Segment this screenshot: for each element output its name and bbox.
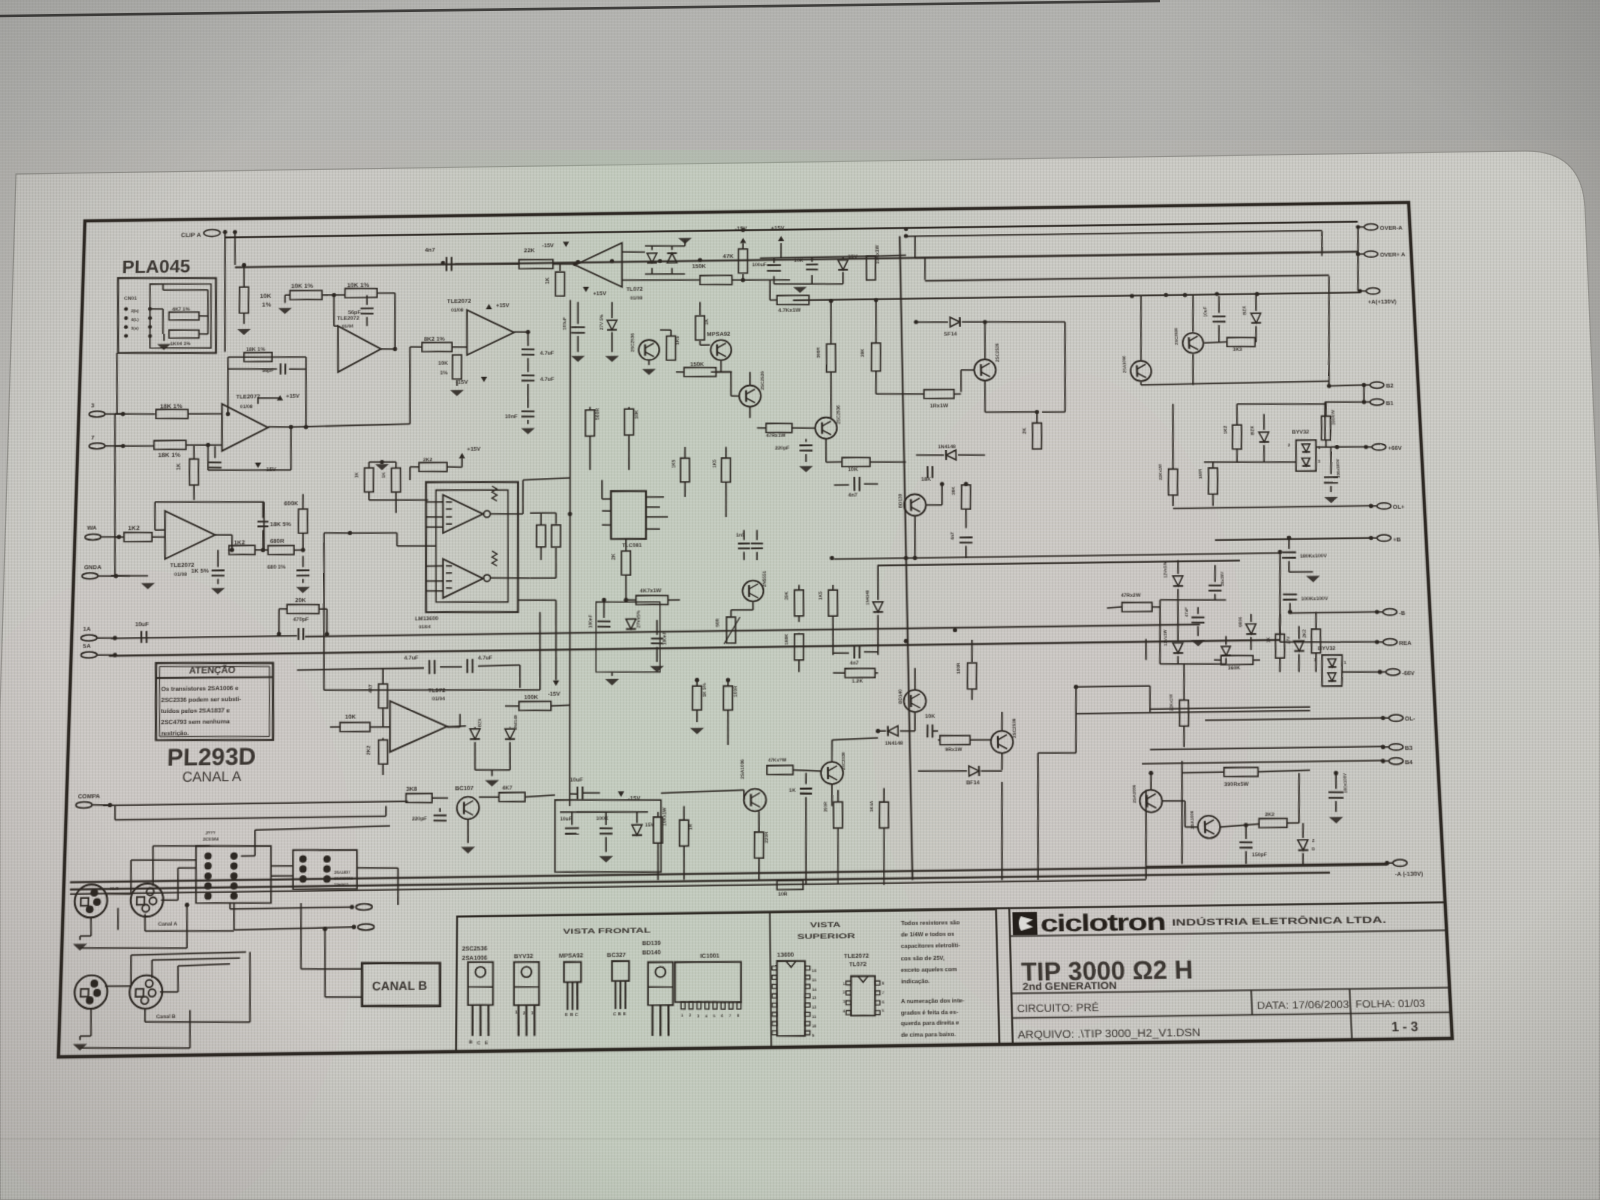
- cap 4.7uF b: [521, 358, 554, 384]
- svg-text:4n7: 4n7: [850, 661, 859, 667]
- svg-text:13600: 13600: [777, 952, 795, 960]
- svg-text:12Vx1W: 12Vx1W: [1162, 630, 1168, 646]
- PLA045 title: [122, 257, 191, 278]
- svg-text:10K: 10K: [438, 361, 448, 367]
- cap 4n7 f1: [834, 477, 878, 499]
- res 47K vert: [723, 249, 748, 283]
- zener 12Vx1W b: [1161, 600, 1183, 664]
- ground PLA045: [157, 334, 171, 350]
- terminal strip 2 box: [292, 849, 357, 890]
- svg-text:1%: 1%: [440, 370, 448, 376]
- svg-text:6: 6: [721, 1014, 723, 1018]
- PLA045 pin labels: [130, 308, 139, 331]
- svg-text:470pF: 470pF: [293, 617, 310, 623]
- svg-text:BF14: BF14: [966, 780, 981, 786]
- svg-text:4K7: 4K7: [502, 786, 512, 792]
- svg-text:1K: 1K: [1266, 636, 1271, 643]
- svg-text:XLR: XLR: [110, 886, 119, 891]
- svg-text:+15V: +15V: [771, 226, 785, 232]
- svg-text:4K7 1%: 4K7 1%: [172, 307, 190, 313]
- svg-text:2SC2536: 2SC2536: [760, 371, 765, 390]
- connector +A(+130V): [1358, 288, 1397, 306]
- res 8K2 1%: [422, 336, 452, 352]
- svg-text:150pF: 150pF: [1252, 852, 1267, 858]
- svg-text:-B: -B: [1399, 610, 1406, 617]
- res 4.7Kx1W: [777, 295, 809, 314]
- junction dots extra: [568, 480, 1079, 696]
- bus 712 pair: [1076, 710, 1310, 713]
- wire 1K2 fb: [228, 549, 232, 551]
- gnd XLR1: [73, 917, 92, 951]
- svg-text:4K7x1W: 4K7x1W: [640, 588, 662, 594]
- res MPSA92 bias: [695, 302, 710, 340]
- svg-text:1K5: 1K5: [675, 336, 681, 345]
- svg-text:2K2: 2K2: [366, 745, 372, 755]
- svg-text:1K5: 1K5: [818, 591, 823, 600]
- svg-text:2K2: 2K2: [1265, 812, 1275, 818]
- svg-text:13: 13: [812, 996, 816, 1000]
- LM pins a: [426, 502, 443, 528]
- connector 5A: [81, 642, 118, 658]
- svg-text:B2: B2: [1386, 383, 1395, 390]
- bus B wire: [235, 248, 1358, 269]
- gnd 10nF: [521, 420, 535, 434]
- wire lm in b: [348, 530, 437, 548]
- gnd 220uF: [799, 454, 813, 472]
- connector B2: [1362, 382, 1395, 391]
- svg-text:OVER-A: OVER-A: [1380, 225, 1404, 232]
- svg-text:8: 8: [737, 1014, 739, 1018]
- svg-text:10Kx1W: 10Kx1W: [662, 807, 667, 826]
- svg-text:7: 7: [91, 434, 95, 441]
- svg-text:3K8: 3K8: [406, 786, 418, 793]
- ciclotron wordmark: [1040, 908, 1165, 937]
- CANAL B box: [361, 962, 440, 1007]
- wire -66V: [1342, 671, 1380, 672]
- svg-text:18K 1%: 18K 1%: [158, 452, 181, 459]
- cap inB: [208, 446, 222, 468]
- res vert LM b: [541, 513, 561, 548]
- svg-text:3: 3: [697, 1014, 699, 1018]
- svg-text:BC107: BC107: [455, 785, 474, 792]
- svg-text:-15V: -15V: [548, 692, 560, 698]
- res on lower bus: [777, 880, 803, 898]
- svg-text:D: D: [1312, 846, 1315, 851]
- svg-text:1K 5%: 1K 5%: [702, 682, 707, 697]
- cap 100x100 r: [1322, 447, 1341, 492]
- svg-text:7: 7: [882, 991, 884, 995]
- svg-text:Canal A: Canal A: [158, 922, 178, 928]
- transistor Qi: [821, 751, 847, 784]
- wire GNDA gnd: [111, 575, 130, 578]
- res 10K b: [330, 713, 390, 732]
- svg-text:23HB02: 23HB02: [334, 883, 348, 887]
- svg-text:10nF: 10nF: [505, 414, 518, 420]
- wire sf14 down: [1039, 322, 1067, 412]
- transistor Qa: [973, 343, 1000, 381]
- wire under net: [193, 446, 196, 500]
- res 1K5 g: [818, 585, 839, 655]
- svg-text:CN01: CN01: [124, 296, 137, 302]
- cap 56pF top: [348, 308, 374, 316]
- svg-text:tuídos pelos 2SA1837 e: tuídos pelos 2SA1837 e: [161, 707, 230, 715]
- svg-text:9: 9: [812, 1033, 814, 1037]
- svg-text:2SC2336: 2SC2336: [841, 751, 846, 770]
- svg-text:1 - 3: 1 - 3: [1391, 1018, 1419, 1034]
- svg-text:+15V: +15V: [286, 394, 300, 400]
- green moire band: [380, 150, 1020, 1200]
- res 1K rl: [1265, 614, 1286, 672]
- cap 1K5pc gnd: [190, 550, 225, 595]
- ground h1: [278, 295, 292, 314]
- stair wire 1: [1033, 686, 1157, 880]
- res 1K i: [789, 773, 812, 794]
- connector +66V: [1364, 444, 1402, 453]
- svg-text:4.7Kx1W: 4.7Kx1W: [778, 308, 801, 314]
- industria eletronica ltda: [1172, 913, 1387, 927]
- svg-text:1K 5%: 1K 5%: [191, 568, 210, 575]
- svg-text:cos são de 25V,: cos são de 25V,: [901, 954, 945, 962]
- svg-text:100nF: 100nF: [662, 631, 667, 645]
- svg-text:10uF: 10uF: [1203, 306, 1208, 317]
- svg-text:OL+: OL+: [1393, 504, 1406, 511]
- wire lm right join: [530, 548, 556, 578]
- pwr +15V clip: [583, 286, 607, 297]
- bus 1A cont: [305, 624, 1200, 641]
- zener 15V reg: [838, 254, 858, 270]
- svg-text:10K 1%: 10K 1%: [347, 282, 370, 289]
- wire B2 rail: [1329, 384, 1364, 387]
- opamp1 feedback loop: [225, 356, 309, 430]
- wire xlr mesh c: [80, 1010, 191, 1050]
- gnd 1K5pc: [690, 728, 704, 735]
- svg-text:10K: 10K: [345, 714, 357, 721]
- svg-text:MPSA92: MPSA92: [707, 331, 731, 338]
- wire h1-h2: [322, 293, 345, 298]
- PLA wires: [149, 283, 209, 334]
- pwr +15V lm: [459, 447, 481, 467]
- title rule big: [1011, 988, 1449, 994]
- svg-text:BD140: BD140: [898, 689, 903, 704]
- svg-text:REA: REA: [1399, 640, 1413, 647]
- pink moire right: [870, 370, 1250, 1030]
- byv32 diodes r: [1288, 442, 1322, 467]
- bus +A rail: [793, 293, 1360, 301]
- ecap 100uF reg: [752, 258, 781, 271]
- svg-text:2SC2536: 2SC2536: [1173, 327, 1179, 345]
- gnd d: [599, 837, 613, 863]
- svg-text:E: E: [485, 1040, 488, 1045]
- svg-text:47K: 47K: [723, 253, 734, 260]
- cap 10uF d: [560, 812, 579, 834]
- package 13600 top: [771, 951, 818, 1038]
- wire lm left loop: [321, 530, 540, 693]
- svg-text:3(a): 3(a): [131, 326, 139, 331]
- svg-text:C: C: [575, 1012, 578, 1017]
- LM13600 inner box: [435, 489, 509, 603]
- bus B vertical: [232, 230, 237, 265]
- loop 20K wires: [277, 608, 330, 637]
- wire rl rails: [1158, 599, 1229, 665]
- svg-text:25x35V: 25x35V: [1219, 571, 1225, 586]
- left vertical rail: [110, 414, 120, 576]
- wire +B rail: [1215, 535, 1371, 541]
- resistor 600K vert: [283, 500, 308, 534]
- svg-text:+A(+130V): +A(+130V): [1368, 299, 1397, 306]
- svg-text:2N5551: 2N5551: [762, 570, 767, 587]
- VISTA SUPERIOR label: [797, 921, 856, 941]
- svg-text:10K: 10K: [794, 258, 804, 264]
- svg-text:indicação.: indicação.: [901, 978, 930, 986]
- bus COMPA 2nd: [115, 802, 386, 820]
- diode rl: [1221, 636, 1231, 664]
- cap 10K g: [925, 714, 938, 738]
- opamp3 out wire: [381, 347, 397, 351]
- svg-text:2SC2536: 2SC2536: [462, 945, 488, 953]
- wire Qa: [959, 320, 989, 392]
- wire xlr mesh d: [145, 952, 252, 1023]
- svg-text:4(L): 4(L): [131, 317, 139, 322]
- transistor Qd2: [1120, 296, 1152, 385]
- svg-text:-A (-130V): -A (-130V): [1395, 870, 1423, 878]
- svg-text:capacitores eletrolíti-: capacitores eletrolíti-: [901, 942, 960, 950]
- zener 12Vx1W a: [1162, 560, 1183, 600]
- svg-text:Canal B: Canal B: [156, 1014, 176, 1021]
- cap 18K 5pc: [257, 521, 291, 528]
- zener ic: [626, 610, 641, 630]
- wire -A bus: [1146, 863, 1387, 866]
- svg-text:-15V: -15V: [735, 226, 747, 232]
- terminal strip 2 label: [334, 871, 354, 887]
- res 100K b: [505, 693, 570, 711]
- svg-text:TLE2072: TLE2072: [337, 316, 359, 322]
- strip wires3: [356, 867, 398, 905]
- bus COMPA wire: [103, 801, 408, 805]
- svg-text:01/08: 01/08: [630, 296, 643, 302]
- svg-text:5: 5: [882, 1009, 885, 1013]
- svg-text:BD139: BD139: [642, 940, 662, 948]
- svg-text:1K2: 1K2: [234, 539, 246, 546]
- cap 10uF 1A: [135, 621, 150, 643]
- transistor BD139: [898, 493, 926, 516]
- diode BF14 h: [918, 766, 1002, 787]
- connector B1: [1362, 399, 1395, 408]
- svg-text:12: 12: [812, 1006, 816, 1010]
- svg-text:TLE2072: TLE2072: [844, 952, 870, 960]
- bus 1A: [111, 636, 297, 639]
- opamp TL072 clip: [575, 243, 622, 288]
- svg-text:querda para direita e: querda para direita e: [901, 1020, 960, 1028]
- pwr -15V opamp1: [255, 462, 277, 473]
- res 180K g: [784, 633, 804, 672]
- svg-text:BZX: BZX: [477, 718, 482, 727]
- svg-text:2SC3298B: 2SC3298B: [334, 877, 353, 881]
- svg-text:22Kx1W: 22Kx1W: [1168, 694, 1174, 711]
- svg-text:50R: 50R: [715, 618, 720, 627]
- sheet 1-3: [1391, 1018, 1419, 1034]
- res 10K vert c: [624, 407, 640, 470]
- transistor Q mid: [630, 333, 659, 361]
- opamp TLE2072 mid: [447, 297, 515, 355]
- svg-text:B1: B1: [1386, 400, 1395, 407]
- ecap 100uF br: [1327, 771, 1349, 812]
- LM13600 box: [425, 481, 519, 613]
- transistor BC107: [455, 785, 480, 820]
- pwr -15V d: [618, 791, 641, 802]
- svg-text:100Kx100V: 100Kx100V: [1301, 596, 1329, 602]
- svg-text:6: 6: [882, 1000, 884, 1004]
- svg-text:exceto aqueles com: exceto aqueles com: [901, 966, 957, 974]
- cap 10nF: [505, 384, 535, 420]
- bus 5A drop: [1145, 639, 1146, 660]
- wire B4 rail: [1142, 760, 1383, 763]
- wire -A box left: [1143, 790, 1148, 864]
- svg-text:FOLHA: 01/03: FOLHA: 01/03: [1355, 998, 1426, 1010]
- caps 180K 100V: [1281, 535, 1327, 560]
- svg-text:1: 1: [1344, 660, 1347, 665]
- svg-text:2SC2536: 2SC2536: [836, 405, 841, 424]
- svg-text:2K: 2K: [611, 553, 617, 560]
- bottom strip divider line: [457, 908, 1009, 916]
- svg-text:+15V: +15V: [467, 447, 481, 453]
- res 1Rx1W: [876, 389, 961, 410]
- svg-text:E: E: [565, 1012, 568, 1017]
- svg-text:1K5: 1K5: [671, 459, 676, 468]
- cap 4.7uF pair a: [404, 656, 435, 675]
- connector REA: [1375, 639, 1413, 648]
- svg-text:1K5: 1K5: [712, 459, 717, 468]
- svg-text:BD139: BD139: [898, 493, 903, 508]
- wire trimmer: [731, 602, 753, 617]
- svg-text:TLE2072: TLE2072: [170, 562, 195, 569]
- wire out mid: [514, 330, 530, 334]
- svg-text:10K: 10K: [634, 410, 640, 419]
- svg-text:2: 2: [1288, 442, 1291, 447]
- res 3K3 r: [1204, 337, 1257, 353]
- title rule logo: [1010, 930, 1446, 936]
- svg-text:100R: 100R: [733, 685, 738, 697]
- notes paragraph 1: [900, 919, 962, 986]
- XLR J4: [129, 975, 177, 1021]
- res 4K7x1W ic: [626, 574, 680, 605]
- package BC327: [607, 951, 629, 1016]
- cap 4n7 f2: [950, 531, 973, 558]
- svg-text:10uF: 10uF: [135, 621, 149, 628]
- res 100R g: [955, 640, 977, 700]
- svg-text:01/04: 01/04: [419, 624, 431, 629]
- svg-text:39K: 39K: [784, 591, 789, 600]
- gnd XLR3: [73, 1008, 92, 1051]
- LM bias glyph b: [492, 551, 497, 566]
- svg-text:150K: 150K: [692, 263, 707, 270]
- wire 600K: [294, 494, 306, 552]
- FOLHA: [1355, 998, 1426, 1010]
- pwr +15V opamp1: [258, 394, 300, 404]
- svg-text:Os transistores 2SA1006 e: Os transistores 2SA1006 e: [161, 685, 239, 693]
- +A rail dots: [1130, 291, 1260, 298]
- XLR J3: [74, 975, 108, 1009]
- ciclotron logo: [1012, 912, 1037, 935]
- svg-text:220pF: 220pF: [412, 816, 427, 822]
- pwr +15 mid: [486, 303, 510, 309]
- xlr wires f: [160, 964, 230, 992]
- pwr -15V LM: [548, 680, 560, 698]
- svg-text:de cima para baixo.: de cima para baixo.: [901, 1031, 957, 1039]
- svg-text:01/08: 01/08: [174, 572, 187, 578]
- svg-text:IC1001: IC1001: [700, 953, 720, 961]
- connector +B: [1369, 535, 1402, 544]
- wire xlr mesh a: [80, 903, 189, 950]
- svg-text:2SA1837: 2SA1837: [334, 871, 350, 875]
- connector OL-: [1381, 715, 1416, 724]
- resistor 18K 1% fb1: [244, 347, 273, 362]
- svg-text:TL972: TL972: [428, 687, 446, 694]
- xlr wires d: [105, 952, 246, 986]
- wire WA: [115, 536, 124, 538]
- svg-text:ATENÇÃO: ATENÇÃO: [189, 664, 236, 677]
- PLA045 CN01 label: [124, 296, 137, 302]
- transistor Qb: [792, 405, 842, 440]
- screen top edge dark line: [0, 1, 1160, 16]
- trimmer 50R: [715, 617, 740, 644]
- wire B1 rail: [1323, 401, 1366, 440]
- res 560R vert: [585, 407, 601, 470]
- svg-text:2K2: 2K2: [423, 457, 432, 463]
- svg-text:2nd GENERATION: 2nd GENERATION: [1022, 981, 1117, 994]
- svg-text:47Rx1W: 47Rx1W: [766, 433, 786, 439]
- package TLE2072 top: [842, 952, 885, 1016]
- PLA045 box: [116, 277, 218, 355]
- res 4K7 c: [479, 785, 555, 802]
- svg-text:2SC2336 podem ser substi-: 2SC2336 podem ser substi-: [161, 696, 241, 704]
- svg-text:CANAL A: CANAL A: [182, 768, 242, 785]
- svg-text:4n7: 4n7: [848, 493, 858, 499]
- zener d: [632, 812, 655, 835]
- resistor 1K2 WA: [124, 525, 153, 542]
- svg-text:J???: J???: [205, 830, 216, 835]
- svg-text:100K: 100K: [524, 694, 539, 701]
- caps 100K 100V: [1283, 594, 1329, 615]
- terminal strip 1 pads: [203, 852, 238, 900]
- svg-text:GNDA: GNDA: [84, 564, 102, 571]
- bus 880 lower: [70, 873, 1330, 890]
- svg-text:220R: 220R: [764, 831, 769, 843]
- opamp TLE2072 01/04: [336, 316, 381, 373]
- cap 220uF: [775, 439, 813, 452]
- svg-text:390R/W: 390R/W: [1330, 410, 1336, 425]
- svg-text:4.7uF: 4.7uF: [404, 656, 419, 662]
- wire lm in a: [369, 499, 428, 501]
- svg-text:MPSA92: MPSA92: [559, 953, 584, 961]
- svg-text:100uF: 100uF: [752, 262, 766, 268]
- DATA: [1257, 999, 1350, 1012]
- cap 18K e: [921, 466, 933, 483]
- svg-text:16: 16: [812, 969, 816, 973]
- svg-text:680 1%: 680 1%: [267, 565, 286, 571]
- svg-text:-15V: -15V: [542, 243, 554, 249]
- resistor 10K 1% h1: [290, 283, 323, 300]
- clip diodes: [622, 245, 685, 274]
- wire inB to res: [115, 445, 154, 446]
- package MPSA92: [559, 953, 584, 1018]
- zener r2: [1249, 414, 1270, 462]
- gnd reg: [774, 272, 843, 293]
- resistor 18K 1% inA: [156, 403, 189, 419]
- CLIP A connector: [181, 229, 227, 239]
- wire 2n5401: [731, 372, 751, 418]
- opamp2 feedback box: [154, 500, 265, 551]
- svg-text:22K: 22K: [524, 247, 535, 254]
